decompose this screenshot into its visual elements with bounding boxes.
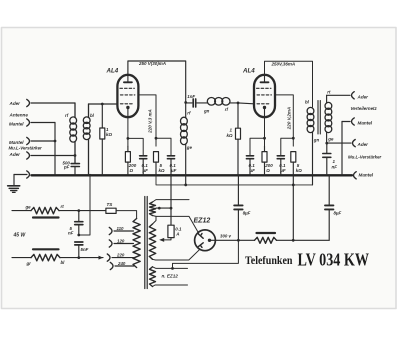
tube V2 AL4 (254, 75, 275, 117)
label n.EZ12 (162, 274, 179, 279)
svg-text:Ader: Ader (357, 94, 369, 99)
svg-text:Ader: Ader (9, 152, 21, 157)
wire screen V2 (275, 95, 293, 146)
svg-text:rf: rf (225, 107, 229, 112)
label 250V 30mA (138, 61, 166, 66)
label Mantel 2 (9, 140, 24, 145)
svg-text:Telefunken: Telefunken (245, 253, 293, 267)
svg-text:EZ12: EZ12 (194, 218, 211, 225)
svg-text:rt: rt (61, 204, 65, 209)
wire Mantel shield down (54, 123, 56, 176)
wire secondary top (327, 94, 350, 96)
svg-text:ge: ge (25, 205, 32, 210)
resistor 1k grid V1 (100, 104, 105, 175)
arrow to 220 tap (99, 256, 104, 260)
B+ 250V supply line (156, 162, 313, 185)
capacitor 0.1uF cathode V1 (140, 156, 147, 176)
resistor 1k grid V2 (236, 103, 241, 175)
svg-text:nF: nF (332, 165, 338, 170)
svg-text:120: 120 (117, 238, 125, 243)
svg-text:µF: µF (279, 168, 286, 173)
capacitor 5nF upper (75, 211, 83, 235)
label ge choke (186, 145, 193, 150)
node heater CT (158, 207, 173, 210)
wire screen bypass V1 (156, 138, 171, 155)
svg-text:rt: rt (327, 89, 331, 94)
terminal Ader (Mu.L core) (27, 152, 75, 159)
label 1nF output (332, 159, 338, 170)
wire cathode V1 (127, 117, 129, 146)
node screen V2 B+ (292, 184, 295, 187)
chassis ground bus (32, 174, 353, 176)
label 0.1uF screen V1 (170, 163, 177, 173)
svg-text:Mantel: Mantel (9, 121, 24, 126)
label gn coupling (203, 109, 210, 114)
svg-text:240: 240 (117, 261, 126, 266)
svg-text:kΩ: kΩ (227, 133, 234, 138)
svg-text:Mu.L-Verstärker: Mu.L-Verstärker (348, 155, 382, 160)
svg-text:220 V,3 mA: 220 V,3 mA (148, 109, 153, 134)
svg-text:gn: gn (313, 138, 320, 143)
terminal Ader (Antenne core) (27, 99, 75, 106)
core mains transformer (145, 197, 147, 289)
label 220V 3mA (148, 109, 153, 134)
svg-text:kΩ: kΩ (106, 132, 113, 137)
label 200 Ohm V1 (128, 163, 137, 173)
svg-text:Ader: Ader (9, 101, 21, 106)
node secondary bottom (325, 142, 328, 145)
label ge output transformer (327, 137, 334, 142)
svg-text:220 V,2mA: 220 V,2mA (286, 107, 291, 130)
svg-text:250V,36mA: 250V,36mA (271, 62, 296, 67)
svg-text:Mantel: Mantel (9, 140, 24, 145)
tap 120 (109, 238, 133, 247)
label Mu.L-Verstärker right (348, 155, 382, 160)
wire 300V line (238, 239, 254, 241)
svg-text:kΩ: kΩ (159, 168, 166, 173)
label 1 kOhm V2 (227, 128, 234, 139)
terminal chassis (14, 171, 30, 178)
svg-text:Ω: Ω (265, 168, 270, 173)
svg-text:gn: gn (203, 109, 210, 114)
wire bus to fuse (170, 175, 172, 225)
node anode V1 (184, 101, 187, 104)
arrow HV CT (159, 238, 164, 242)
capacitor 500pF (71, 164, 79, 176)
transformer mains primary (133, 219, 140, 268)
svg-text:TS: TS (107, 202, 114, 207)
svg-text:Antenne: Antenne (9, 113, 29, 118)
wire Mantel right down (341, 122, 343, 176)
transformer output primary (307, 107, 314, 184)
wire fuse to HV CT (162, 238, 171, 240)
label Mu.L-Verstärker (9, 146, 43, 151)
label Mantel right 1 (358, 121, 373, 126)
resistor dropper top 45W (12, 207, 106, 217)
wire screen V1 (139, 95, 156, 146)
svg-text:µF: µF (142, 168, 149, 173)
capacitor 1nF coupling (186, 99, 208, 107)
fuse 0.1A (168, 225, 174, 237)
label Mantel right 2 (359, 172, 374, 177)
label Mantel (9, 121, 24, 126)
label bl output transformer (305, 100, 310, 105)
svg-text:n. EZ12: n. EZ12 (162, 274, 179, 279)
terminal Mantel (Mu.L shield) (27, 137, 55, 144)
label 8uF input (243, 210, 251, 215)
label rf choke (187, 111, 191, 116)
capacitor 0.1uF cathode V2 (247, 156, 254, 176)
resistor dropper bottom 45W (12, 249, 103, 260)
svg-text:Verteilernetz: Verteilernetz (351, 106, 378, 111)
ground (8, 186, 20, 193)
label EZ12 (194, 218, 211, 225)
label 300 V (220, 234, 232, 239)
node bus fuse (170, 174, 173, 177)
label Ader (9, 101, 21, 106)
node dropper cap bottom (77, 256, 80, 259)
label rf (coil) (65, 113, 69, 118)
svg-text:AL4: AL4 (242, 68, 255, 75)
label bl dropper (61, 260, 66, 265)
node 300V (237, 239, 240, 242)
label Ader right 2 (357, 142, 369, 147)
node cathode V2 (263, 137, 266, 140)
label gr dropper (26, 261, 32, 266)
node Mantel junction (54, 140, 57, 143)
label Antenne (9, 113, 29, 118)
svg-text:ge: ge (186, 145, 193, 150)
resistor 5k screen V1 (154, 152, 159, 176)
winding HV (149, 216, 156, 259)
wire 5nF midpoint to bus (79, 175, 90, 235)
wire HV anode 2 (153, 250, 200, 260)
svg-text:µF: µF (249, 168, 256, 173)
label Telefunken (245, 253, 293, 267)
label Verteilernetz (351, 106, 378, 111)
terminal Ader Mu.L (353, 140, 356, 147)
svg-text:8µF: 8µF (334, 210, 342, 215)
resistor 200 cathode V1 (125, 146, 130, 175)
wire EZ12 heater top (153, 267, 188, 269)
svg-text:ge: ge (327, 137, 334, 142)
wire to ground (13, 175, 15, 186)
wire EZ12 heater bottom (153, 285, 188, 287)
label 5 kOhm V2 (296, 163, 303, 173)
label 5 nF upper (68, 226, 74, 235)
label rt dropper (61, 204, 65, 209)
svg-text:A: A (175, 232, 179, 237)
label 0.1 A (175, 227, 182, 237)
transformer output secondary (325, 95, 332, 143)
svg-text:8µF: 8µF (243, 210, 251, 215)
node choke B+ (184, 184, 187, 187)
svg-text:rf: rf (187, 111, 191, 116)
node screen V1 (155, 137, 158, 140)
svg-text:µF: µF (170, 168, 177, 173)
wire 250V to B+ (292, 185, 294, 240)
label 0.1uF cathode V1 (142, 163, 149, 173)
label AL4 (V2) (242, 68, 255, 75)
node antenna coupling (74, 154, 77, 157)
resistor 200 cathode V2 (262, 146, 267, 175)
svg-text:45 W: 45 W (13, 233, 27, 239)
label 220V 2mA (286, 107, 291, 130)
label LV 034 KW (298, 249, 370, 269)
svg-text:220: 220 (116, 252, 125, 257)
tube EZ12 (195, 230, 216, 251)
resistor smoothing (255, 233, 277, 243)
wire EZ12 cathode (210, 239, 239, 241)
wire grid V1 (89, 103, 118, 105)
terminal Mantel (Antenne shield) (27, 119, 55, 126)
wire secondary to Ader (327, 142, 351, 144)
svg-text:pF: pF (63, 165, 70, 170)
wire grid V2 (238, 102, 254, 105)
node dropper cap top (77, 209, 80, 212)
terminal Ader Verteilernetz (352, 92, 355, 99)
label Ader 2 (9, 152, 21, 157)
label 1nF coupling (187, 94, 195, 99)
wire cathode bypass V1 (128, 138, 143, 155)
capacitor 8uF output (325, 175, 333, 240)
wire cathode V2 (264, 117, 266, 146)
svg-text:Ω: Ω (129, 168, 134, 173)
svg-text:300 v: 300 v (220, 234, 232, 239)
wire fuse to primary (116, 211, 137, 219)
node EZ12 heater (171, 267, 174, 270)
node bus heater (89, 174, 92, 177)
fuse TS (106, 208, 116, 213)
svg-text:LV 034 KW: LV 034 KW (298, 249, 370, 269)
label 45 W (13, 233, 27, 239)
label 5 kOhm V1 (159, 163, 166, 173)
label TS (107, 202, 114, 207)
label 0.1uF screen V2 (279, 163, 286, 173)
node cathode V1 (127, 137, 130, 140)
label ge dropper (25, 205, 32, 210)
label 1 kOhm V1 (106, 127, 113, 137)
svg-text:5nF: 5nF (81, 247, 89, 252)
svg-text:Mantel: Mantel (358, 121, 373, 126)
capacitor 0.1uF screen V1 (168, 156, 175, 176)
wire heater CT (156, 207, 171, 209)
svg-text:AL4: AL4 (106, 68, 119, 75)
tube V1 AL4 (117, 75, 138, 117)
node 5nF midpoint (77, 234, 80, 237)
terminal Mantel right 1 (342, 118, 354, 125)
label 500pF (63, 160, 71, 169)
capacitor 1nF output (323, 143, 331, 175)
wire anode V2 (265, 61, 313, 107)
label Ader right (357, 94, 369, 99)
tap 220 (107, 252, 133, 261)
svg-text:Mantel: Mantel (359, 172, 374, 177)
winding heater EZ12 (150, 267, 156, 287)
wire 250V line (277, 239, 330, 241)
node grid V2 (237, 102, 240, 105)
capacitor 5nF lower (75, 242, 83, 258)
label 5nF lower (81, 247, 89, 252)
coil coupling rf (207, 98, 238, 106)
wire anode V1 (128, 61, 186, 103)
wire cathode bypass V2 (250, 138, 265, 155)
node screen V2 (292, 137, 295, 140)
label 8uF output (334, 210, 342, 215)
label AL4 (V1) (106, 68, 119, 75)
svg-text:nF: nF (68, 230, 74, 235)
winding heater AL4 (150, 202, 156, 216)
core output transformer (318, 101, 320, 135)
node 250V (292, 239, 295, 242)
label 250V 36mA (271, 62, 296, 67)
label 0.1uF cathode V2 (249, 163, 256, 173)
svg-text:rf: rf (65, 113, 69, 118)
tap 240 (110, 261, 134, 270)
label bl (coil) (90, 113, 95, 118)
choke rf anode V1 (181, 103, 188, 185)
capacitor 8uF input (234, 175, 242, 240)
svg-text:250 V(30)mA: 250 V(30)mA (138, 61, 166, 66)
coil bl grid (83, 104, 90, 175)
svg-text:Ader: Ader (357, 142, 369, 147)
resistor 5k screen V2 (291, 152, 296, 185)
label 200 Ohm V2 (264, 163, 273, 173)
svg-text:gr: gr (26, 261, 32, 266)
wire heater to 300V (173, 240, 239, 268)
terminal Mantel right 2 (354, 172, 357, 179)
wire screen bypass V2 (281, 138, 294, 155)
wire heater stub (153, 200, 190, 202)
capacitor 0.1uF screen V2 (277, 156, 284, 176)
label gn output transformer (313, 138, 320, 143)
coil rf antenna (70, 103, 77, 163)
label rt output transformer (327, 89, 331, 94)
label rf coupling (225, 107, 229, 112)
tap 110 (109, 226, 133, 235)
node grid V1 (101, 103, 104, 106)
svg-text:kΩ: kΩ (296, 168, 303, 173)
wire HV anode 1 (153, 216, 199, 234)
svg-text:Mu.L-Verstärker: Mu.L-Verstärker (9, 146, 43, 151)
svg-text:1nF: 1nF (187, 94, 195, 99)
svg-text:110: 110 (117, 226, 125, 231)
